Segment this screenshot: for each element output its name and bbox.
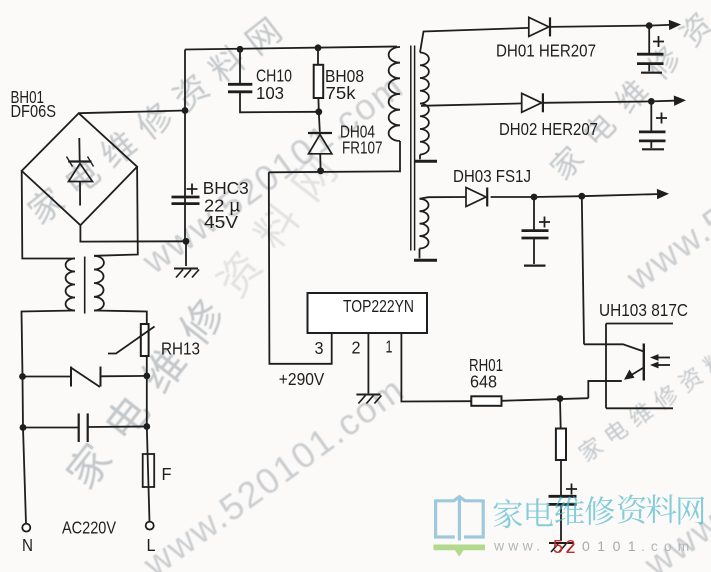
svg-text:UH103 817C: UH103 817C — [599, 300, 688, 320]
svg-text:DH03 FS1J: DH03 FS1J — [453, 166, 531, 186]
svg-text:0101: 0101 — [582, 538, 643, 554]
svg-text:AC220V: AC220V — [62, 518, 116, 538]
svg-text:TOP222YN: TOP222YN — [343, 296, 414, 316]
svg-text:+290V: +290V — [279, 369, 325, 389]
svg-text:L: L — [147, 535, 156, 555]
svg-text:2: 2 — [352, 338, 361, 358]
svg-text:648: 648 — [470, 372, 497, 392]
svg-text:103: 103 — [256, 83, 284, 103]
svg-text:FR107: FR107 — [342, 138, 383, 158]
svg-text:75k: 75k — [326, 83, 356, 103]
svg-text:N: N — [22, 535, 33, 555]
svg-text:DF06S: DF06S — [11, 101, 57, 121]
svg-text:DH01 HER207: DH01 HER207 — [496, 41, 596, 61]
svg-text:45V: 45V — [204, 212, 238, 232]
svg-text:RH13: RH13 — [161, 339, 200, 359]
svg-text:.com: .com — [641, 538, 695, 554]
svg-text:www.: www. — [493, 538, 544, 554]
svg-text:F: F — [162, 464, 172, 484]
svg-text:DH02 HER207: DH02 HER207 — [499, 119, 598, 139]
svg-text:3: 3 — [315, 338, 324, 358]
svg-text:1: 1 — [386, 337, 393, 357]
svg-text:52: 52 — [553, 537, 578, 557]
